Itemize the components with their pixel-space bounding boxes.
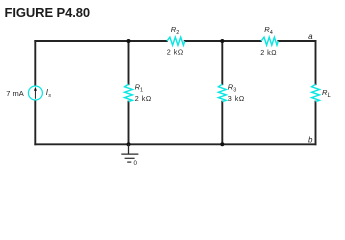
svg-text:3 kΩ: 3 kΩ (228, 94, 245, 103)
svg-text:4: 4 (270, 30, 273, 36)
svg-text:a: a (308, 32, 313, 41)
svg-text:2 kΩ: 2 kΩ (260, 48, 277, 57)
svg-text:7 mA: 7 mA (6, 89, 24, 98)
svg-text:s: s (48, 93, 51, 99)
svg-text:2 kΩ: 2 kΩ (135, 94, 152, 103)
svg-text:2 kΩ: 2 kΩ (167, 47, 184, 56)
svg-text:FIGURE P4.80: FIGURE P4.80 (5, 5, 91, 20)
svg-text:0: 0 (134, 160, 138, 167)
svg-text:b: b (308, 136, 313, 145)
svg-text:L: L (328, 93, 331, 99)
svg-text:3: 3 (233, 88, 236, 94)
svg-text:2: 2 (176, 30, 179, 36)
svg-text:1: 1 (140, 88, 143, 94)
